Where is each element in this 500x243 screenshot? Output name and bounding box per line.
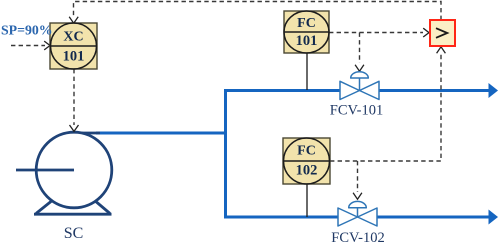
svg-text:XC: XC [63, 29, 83, 44]
svg-text:FCV-102: FCV-102 [331, 230, 384, 243]
svg-text:102: 102 [296, 163, 318, 179]
svg-text:FCV-101: FCV-101 [330, 103, 383, 119]
svg-text:FC: FC [297, 16, 316, 31]
svg-text:101: 101 [63, 48, 85, 64]
svg-text:SP=90%: SP=90% [1, 23, 53, 38]
svg-text:FC: FC [297, 143, 316, 158]
svg-text:101: 101 [296, 33, 318, 49]
svg-text:SC: SC [64, 225, 84, 242]
